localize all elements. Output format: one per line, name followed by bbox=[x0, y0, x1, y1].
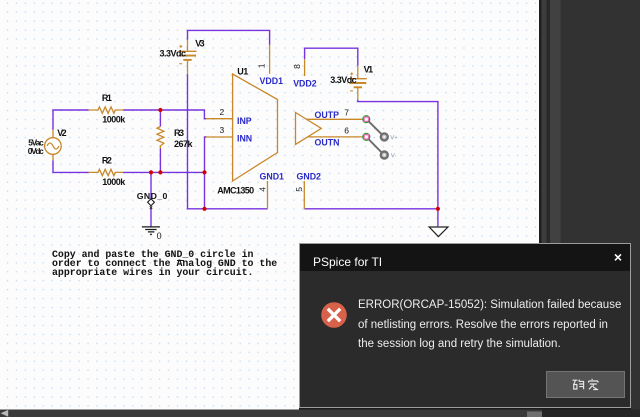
value V1 3.3Vdc bbox=[330, 75, 357, 85]
wire ground stem right bbox=[437, 209, 439, 227]
label R3 bbox=[174, 128, 184, 138]
note text bbox=[52, 250, 277, 278]
ground 0 label bbox=[157, 231, 162, 241]
pin name VDD2 bbox=[293, 78, 317, 88]
value V2 0Vdc bbox=[28, 146, 44, 156]
wire GND2 rail bbox=[304, 208, 438, 210]
label V3 bbox=[195, 39, 205, 49]
wire V2 top to R1 bbox=[53, 110, 89, 130]
wire V2 bottom to R2 bbox=[53, 160, 89, 172]
ground GND_0 bars bbox=[142, 227, 160, 235]
pin name GND1 bbox=[260, 171, 285, 181]
svg-text:7: 7 bbox=[344, 107, 349, 117]
right side panel bbox=[539, 0, 640, 417]
resistor R2 bbox=[89, 169, 124, 175]
wire V1 negative down right side bbox=[358, 100, 438, 209]
pin number 2 bbox=[220, 107, 225, 117]
probe V- marker bbox=[381, 152, 397, 160]
op-amp U1 input body bbox=[233, 74, 278, 181]
svg-text:V-: V- bbox=[391, 154, 397, 160]
pin name INN bbox=[237, 134, 252, 144]
wire GND_0 stem upper bbox=[150, 172, 152, 198]
value U1 AMC1350 bbox=[217, 186, 254, 196]
probe V+ marker bbox=[381, 133, 399, 141]
svg-text:V1: V1 bbox=[364, 65, 374, 75]
pin number 4 bbox=[258, 187, 268, 192]
value R2 1000k bbox=[102, 177, 126, 187]
pin 4 GND1 stub bbox=[267, 181, 269, 209]
wire R3 top lead bbox=[159, 110, 161, 127]
junction right ground bbox=[436, 207, 440, 211]
svg-text:V3: V3 bbox=[195, 39, 205, 49]
pin name INP bbox=[237, 116, 252, 126]
label V2 bbox=[57, 128, 66, 138]
svg-text:GND_0: GND_0 bbox=[137, 191, 168, 201]
svg-text:VDD1: VDD1 bbox=[260, 76, 284, 86]
svg-text:8: 8 bbox=[292, 64, 302, 69]
dialog PSpice for TI bbox=[299, 243, 631, 408]
pin 8 VDD2 stub bbox=[304, 59, 306, 76]
GND_0 pin x marker bbox=[150, 206, 152, 209]
pin name VDD1 bbox=[260, 76, 284, 86]
pin number 5 bbox=[294, 187, 304, 192]
label GND_0 bbox=[137, 191, 168, 201]
wire INN vertical to GND rail bbox=[205, 137, 207, 209]
svg-text:R2: R2 bbox=[102, 155, 112, 165]
junction INN column top bbox=[202, 170, 206, 174]
ground earth right bbox=[429, 227, 448, 237]
wire VDD2 to V1 positive bbox=[305, 48, 358, 66]
pin 5 GND2 stub bbox=[303, 181, 305, 209]
pin 1 VDD1 stub bbox=[269, 45, 271, 74]
junction INN column GND rail bbox=[202, 207, 206, 211]
pin number 1 bbox=[257, 63, 267, 68]
svg-text:2: 2 bbox=[220, 107, 225, 117]
source V1 battery bbox=[349, 66, 367, 100]
svg-text:GND1: GND1 bbox=[260, 171, 285, 181]
dialog title bar bbox=[300, 244, 630, 271]
value V3 3.3Vdc bbox=[160, 48, 187, 58]
svg-text:267k: 267k bbox=[174, 139, 193, 149]
pin number 8 bbox=[292, 64, 302, 69]
svg-text:U1: U1 bbox=[237, 66, 248, 76]
svg-text:OUTP: OUTP bbox=[315, 110, 340, 120]
probe V- lead bbox=[368, 139, 381, 152]
source V3 battery bbox=[179, 40, 197, 75]
junction R1-R3 bbox=[158, 108, 162, 112]
svg-text:VDD2: VDD2 bbox=[293, 78, 317, 88]
wire R3 bottom lead bbox=[159, 149, 161, 173]
pin name OUTN bbox=[315, 138, 340, 148]
wire GND_0 stem lower bbox=[150, 209, 152, 227]
resistor R1 bbox=[89, 107, 124, 113]
dialog close button bbox=[614, 250, 622, 264]
op-amp U1 output triangle bbox=[296, 113, 322, 145]
taskbar scroll arrow bbox=[1, 410, 9, 417]
svg-text:1000k: 1000k bbox=[102, 177, 126, 187]
svg-text:3.3Vdc: 3.3Vdc bbox=[160, 48, 187, 58]
svg-text:4: 4 bbox=[258, 187, 268, 192]
pin name GND2 bbox=[297, 171, 322, 181]
pin 6 OUTN stub bbox=[308, 136, 365, 138]
resistor R3 bbox=[157, 127, 164, 149]
svg-text:AMC1350: AMC1350 bbox=[217, 186, 254, 196]
dialog shadow strip bbox=[299, 406, 631, 410]
svg-text:1: 1 bbox=[257, 63, 267, 68]
svg-text:INP: INP bbox=[237, 116, 252, 126]
pin number 3 bbox=[220, 125, 225, 135]
label V1 bbox=[364, 65, 374, 75]
label R2 bbox=[102, 155, 112, 165]
svg-text:0Vdc: 0Vdc bbox=[28, 146, 44, 156]
svg-text:R1: R1 bbox=[102, 93, 112, 103]
svg-text:V2: V2 bbox=[57, 128, 66, 138]
wire R2 to INN column bbox=[123, 171, 204, 173]
value R1 1000k bbox=[102, 115, 126, 125]
wire V3 negative down and GND rail to GND1 bbox=[188, 75, 268, 209]
svg-text:V+: V+ bbox=[390, 136, 398, 142]
dialog OK button bbox=[546, 371, 625, 398]
svg-text:INN: INN bbox=[237, 134, 252, 144]
note overline on Analog bbox=[177, 260, 184, 261]
svg-text:1000k: 1000k bbox=[102, 115, 126, 125]
wire V3 positive to VDD1 pin bbox=[188, 30, 270, 45]
pin number 7 bbox=[344, 107, 349, 117]
pin 3 INN stub bbox=[206, 136, 233, 138]
GND_0 net connector circle bbox=[148, 199, 155, 206]
svg-text:OUTN: OUTN bbox=[315, 138, 340, 148]
svg-text:3: 3 bbox=[220, 125, 225, 135]
pin 7 OUTP stub bbox=[307, 118, 365, 120]
junction GND_0 tap bbox=[149, 170, 153, 174]
junction R3 bottom bbox=[158, 170, 162, 174]
svg-text:0: 0 bbox=[157, 231, 162, 241]
label R1 bbox=[102, 93, 112, 103]
pin 2 INP stub bbox=[206, 118, 233, 120]
pin end marker OUTN bbox=[363, 134, 370, 141]
value R3 267k bbox=[174, 139, 193, 149]
svg-text:5: 5 bbox=[294, 187, 304, 192]
source V2 bbox=[45, 130, 62, 161]
label U1 bbox=[237, 66, 248, 76]
svg-text:6: 6 bbox=[344, 126, 349, 136]
svg-text:GND2: GND2 bbox=[297, 171, 322, 181]
dialog message text bbox=[358, 296, 626, 355]
value V2 5Vac bbox=[28, 138, 44, 148]
probe V+ lead bbox=[368, 121, 381, 134]
pin number 6 bbox=[344, 126, 349, 136]
dialog error icon bbox=[321, 302, 347, 328]
pin name OUTP bbox=[315, 110, 340, 120]
svg-text:R3: R3 bbox=[174, 128, 184, 138]
pin end marker OUTP bbox=[363, 116, 370, 123]
taskbar bbox=[0, 410, 640, 417]
wire R1 to INP jog bbox=[123, 110, 206, 119]
svg-text:3.3Vdc: 3.3Vdc bbox=[330, 75, 357, 85]
